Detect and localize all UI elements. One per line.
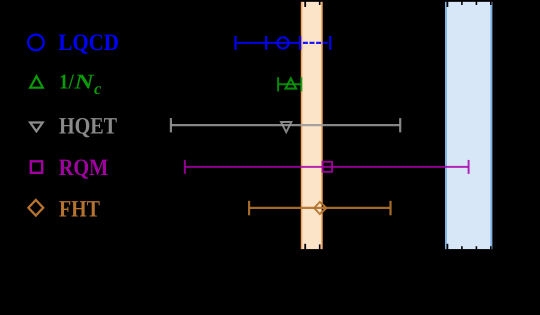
LQCD cap right outer <box>329 36 331 50</box>
LQCD cap left outer <box>234 36 236 50</box>
HQET marker triangle-down <box>281 122 291 132</box>
top minor tick at x=319.7 <box>319 2 321 5</box>
svg-text:LQCD: LQCD <box>58 30 119 56</box>
1/Nc marker triangle-up <box>286 78 297 88</box>
FHT cap right <box>389 201 391 216</box>
bottom major tick at x=305.2 <box>304 244 306 249</box>
legend marker square (RQM) <box>31 161 42 173</box>
HQET errorbar <box>171 124 400 126</box>
top major tick at x=305.2 <box>304 2 306 7</box>
svg-text:HQET: HQET <box>59 114 117 140</box>
FHT marker diamond <box>314 202 325 214</box>
black dot lower on arrow <box>322 209 323 210</box>
top minor tick at x=490.8 <box>490 2 492 5</box>
bottom minor tick at x=319.7 <box>319 244 321 249</box>
top axis spine (black) <box>0 0 540 2</box>
LQCD marker circle <box>277 37 288 48</box>
RQM cap right <box>468 160 470 174</box>
1/Nc cap left <box>277 77 279 91</box>
legend marker triangle-down (HQET) <box>30 123 43 132</box>
LQCD cap right inner <box>299 36 301 50</box>
bottom minor tick at x=490.8 <box>490 246 492 249</box>
legend marker triangle-up (1/Nc) <box>30 76 43 88</box>
svg-text:FHT: FHT <box>59 197 100 223</box>
1/Nc errorbar <box>278 83 301 85</box>
legend marker circle (LQCD) <box>28 35 44 51</box>
bottom minor tick at x=461.9 <box>461 246 463 249</box>
FHT filled arrow at band edge <box>322 202 328 214</box>
RQM errorbar <box>185 166 469 168</box>
top minor tick at x=476.4 <box>475 2 477 5</box>
HQET cap left <box>170 118 172 132</box>
orange band right edge <box>321 2 323 250</box>
blue band right edge <box>490 2 492 250</box>
legend marker diamond (FHT) <box>28 200 43 216</box>
orange band left edge <box>301 2 303 250</box>
svg-text:c: c <box>94 79 102 98</box>
HQET cap right <box>399 118 401 132</box>
bottom axis spine (black) <box>0 249 540 251</box>
LQCD errorbar dashed segment <box>303 42 328 44</box>
LQCD errorbar solid segment <box>236 42 301 44</box>
top minor tick at x=461.9 <box>461 2 463 5</box>
svg-text:RQM: RQM <box>59 155 108 181</box>
bottom minor tick at x=476.4 <box>475 246 477 249</box>
top major tick at x=447.4 <box>446 2 448 7</box>
RQM cap left <box>184 160 186 174</box>
svg-text:N: N <box>73 70 95 94</box>
orange band (experimental average) <box>301 2 323 250</box>
svg-text:1/: 1/ <box>59 70 75 94</box>
black dot upper on arrow <box>322 205 323 206</box>
bottom major tick at x=447.4 <box>446 244 448 249</box>
FHT errorbar <box>249 207 390 209</box>
1/Nc cap right <box>300 77 302 91</box>
FHT cap left <box>248 201 250 216</box>
LQCD cap left inner <box>265 36 267 50</box>
blue band (experimental measurement) <box>445 2 492 250</box>
blue band left edge <box>445 2 447 250</box>
RQM marker square <box>323 162 333 172</box>
